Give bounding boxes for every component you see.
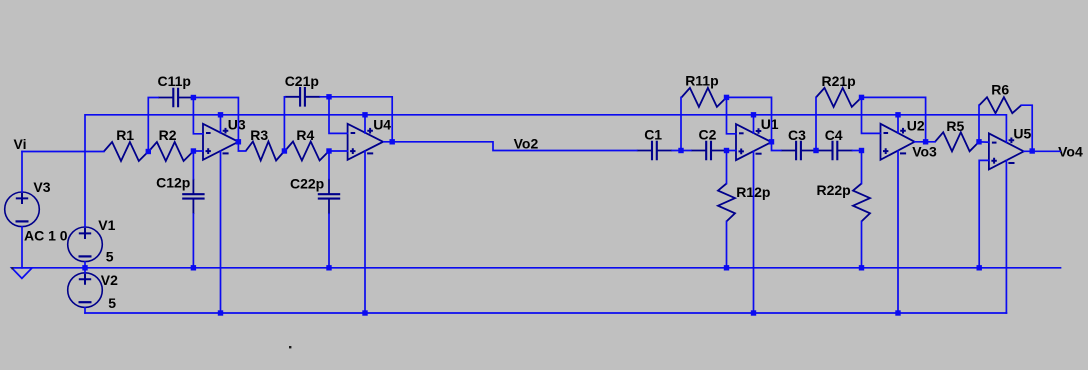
wire R21 to U2 output [862, 97, 926, 141]
stray speck at ground rail end [11, 267, 13, 269]
wire C12 bottom lead to ground [192, 214, 194, 268]
wire C3 to C4 node B2 [815, 150, 818, 152]
wire R11 to U1 output [727, 97, 772, 141]
capacitor C1 [637, 141, 672, 161]
svg-text:C2: C2 [699, 127, 717, 143]
svg-text:U3: U3 [228, 116, 246, 132]
wire C11 output side to U3 output [193, 98, 238, 142]
junction C22 at ground rail [326, 265, 331, 270]
wire C2 to U1 non-inverting input [726, 150, 736, 152]
resistor R6 [979, 97, 1021, 113]
wire R5 to U5 inverting input [979, 141, 989, 143]
ground [12, 268, 32, 279]
svg-text:U5: U5 [1013, 125, 1031, 141]
voltage source V3 [5, 192, 40, 227]
resistor R22 [853, 184, 870, 222]
svg-text:R4: R4 [296, 127, 314, 143]
wire V1 to ground rail [84, 262, 86, 268]
capacitor C12 [182, 179, 204, 214]
wire U3 non-inverting input stub [193, 150, 203, 152]
junction R22 at ground rail [859, 265, 864, 270]
wire U2 V+ pin [897, 115, 899, 133]
op-amp U5 [989, 133, 1024, 169]
junction U2 V+ on rail [895, 112, 900, 117]
resistor R4 [285, 142, 329, 161]
junction C4/R22/U2+ node [859, 148, 864, 153]
wire C12 top lead [192, 151, 194, 179]
wire U3 output to R3 [238, 142, 245, 151]
junction C1-C2 node B1 [678, 148, 683, 153]
junction V1-V2 ground node [82, 265, 87, 270]
junction U1 V- on rail [751, 310, 756, 315]
svg-text:V1: V1 [98, 217, 115, 233]
junction R5/R6/U5- node [976, 139, 981, 144]
wire U1 V- pin [753, 151, 755, 313]
wire V+ rail from V1 to U5 [85, 115, 1006, 227]
junction U3 output [236, 139, 241, 144]
resistor R11 [682, 88, 727, 107]
svg-text:C4: C4 [825, 127, 843, 143]
wire U2 V- pin [897, 151, 899, 313]
wire V2 bottom lead to V- rail [84, 308, 86, 313]
wire R22 bottom lead to ground [861, 221, 863, 267]
junction U2 output Vo3 [923, 139, 928, 144]
wire V2 top lead [84, 268, 86, 273]
svg-text:5: 5 [106, 248, 114, 264]
svg-text:U1: U1 [761, 116, 779, 132]
wire C22 top lead [328, 151, 330, 179]
capacitor C3 [781, 141, 816, 161]
junction R1-R2 node A1 [146, 149, 151, 154]
wire V- rail [85, 312, 1006, 314]
resistor R12 [718, 184, 735, 222]
junction U2 V- on rail [895, 310, 900, 315]
svg-text:C11p: C11p [158, 73, 191, 89]
junction R11 right node [724, 95, 729, 100]
junction U3 V+ on rail [218, 112, 223, 117]
svg-text:Vo4: Vo4 [1058, 144, 1083, 160]
junction C11 output node [191, 95, 196, 100]
wire U1 inverting input feedback [727, 97, 737, 133]
junction C2/R12/U1+ node [724, 148, 729, 153]
svg-text:Vo3: Vo3 [912, 144, 937, 160]
voltage source V1 [68, 227, 103, 262]
wire Vo3 net U2 output to R5 [915, 141, 935, 143]
resistor R3 [246, 142, 285, 161]
junction U1 output [769, 139, 774, 144]
wire C21 output side to U4 output [320, 97, 392, 142]
svg-text:C12p: C12p [156, 174, 190, 190]
junction R21 right node [859, 95, 864, 100]
junction C3-C4 node B2 [813, 148, 818, 153]
wire U4 V- pin [364, 151, 366, 313]
svg-text:C22p: C22p [290, 175, 324, 191]
svg-text:R1: R1 [116, 127, 134, 143]
svg-text:AC 1 0: AC 1 0 [24, 228, 68, 244]
wire U5 non-inverting input to ground [979, 160, 989, 267]
svg-text:V2: V2 [101, 272, 118, 288]
junction R12 at ground rail [724, 265, 729, 270]
junction U4 V+ on rail [362, 112, 367, 117]
voltage source V2 [68, 273, 103, 308]
wire ground rail [12, 267, 1061, 269]
svg-text:R5: R5 [946, 118, 964, 134]
capacitor C22 [318, 179, 340, 214]
wire R6 to U5 output [1021, 105, 1032, 151]
svg-text:R2: R2 [159, 127, 177, 143]
capacitor C11 [158, 88, 193, 108]
svg-text:C3: C3 [788, 127, 806, 143]
wire Vo4 net U5 output [1024, 150, 1060, 152]
wire U3 V- pin [220, 151, 222, 313]
wire U4 V+ pin [364, 115, 366, 133]
resistor R21 [816, 88, 862, 107]
junction U3 V- on rail [218, 310, 223, 315]
wire R12 bottom lead to ground [726, 221, 728, 267]
wire U1 output to C3 [772, 142, 781, 151]
junction R3-R4 node A2 [282, 148, 287, 153]
svg-text:C21p: C21p [285, 73, 319, 89]
capacitor C2 [691, 141, 726, 161]
junction U5 output Vo4 [1030, 148, 1035, 153]
wire node A2 riser to C21 [283, 97, 286, 151]
svg-text:U4: U4 [373, 116, 391, 132]
junction R4/C22/U4+ node [326, 148, 331, 153]
svg-text:R11p: R11p [685, 73, 718, 89]
wire Vi input net [22, 151, 104, 153]
wire U4 non-inverting input stub [329, 150, 348, 152]
junction R2/C12/U3+ node [191, 148, 196, 153]
svg-text:R22p: R22p [817, 182, 851, 198]
resistor R5 [935, 132, 979, 151]
svg-text:U2: U2 [907, 117, 925, 133]
stray dot artifact [289, 346, 291, 348]
op-amp U1 [736, 124, 771, 160]
svg-text:5: 5 [108, 295, 116, 311]
wire node B2 riser to R21 [815, 97, 817, 150]
wire U4 inverting input feedback [329, 97, 348, 134]
wire V3 top lead [21, 152, 23, 192]
wire C4 to U2 non-inverting input [853, 150, 862, 152]
wire node riser to R6 [978, 105, 980, 142]
svg-text:R21p: R21p [822, 73, 856, 89]
resistor R2 [149, 142, 194, 161]
wire U3 inverting input feedback [193, 98, 203, 134]
capacitor C4 [817, 141, 852, 161]
resistor R1 [104, 142, 149, 161]
junction U4 output Vo2 [390, 139, 395, 144]
junction C12 at ground rail [191, 265, 196, 270]
svg-text:R6: R6 [991, 81, 1009, 97]
wire node B1 riser to R11 [680, 97, 682, 150]
wire U2 inverting input feedback [862, 97, 881, 133]
junction U4 V- on rail [362, 310, 367, 315]
wire U1 V+ pin [753, 115, 755, 133]
wire U3 V+ pin [220, 115, 222, 133]
op-amp U4 [348, 124, 383, 160]
svg-text:Vi: Vi [14, 136, 27, 152]
op-amp U3 [203, 124, 238, 160]
capacitor C21 [285, 87, 320, 107]
svg-text:C1: C1 [644, 127, 662, 143]
svg-text:V3: V3 [33, 179, 50, 195]
junction U1 V+ on rail [751, 112, 756, 117]
junction U5+ at ground rail [977, 265, 982, 270]
wire C1 to C2 node B1 [672, 150, 691, 152]
svg-text:Vo2: Vo2 [514, 136, 539, 152]
junction C21 output node [326, 94, 331, 99]
wire R12 top lead [726, 151, 728, 184]
wire V3 bottom lead to ground [21, 227, 23, 268]
wire node A1 riser to C11 [148, 98, 158, 152]
wire Vo2 net U4 output to C1 [384, 142, 637, 151]
wire R22 top lead [861, 151, 863, 184]
op-amp U2 [881, 124, 915, 160]
wire C22 bottom lead to ground [328, 214, 330, 268]
wire U5 V- pin [1005, 160, 1007, 313]
